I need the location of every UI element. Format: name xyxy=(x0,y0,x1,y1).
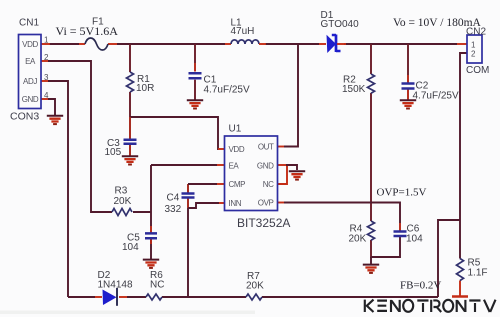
ground C5 xyxy=(143,260,159,268)
ground C1 xyxy=(187,100,203,108)
wire bottom rail xyxy=(68,296,438,298)
svg-text:20K: 20K xyxy=(246,281,264,292)
wire VDD net xyxy=(130,117,219,149)
svg-text:OVP=1.5V: OVP=1.5V xyxy=(377,187,427,199)
svg-text:332: 332 xyxy=(165,204,182,215)
svg-text:EA: EA xyxy=(25,57,36,66)
ground R4 C6 xyxy=(363,265,379,273)
svg-text:GND: GND xyxy=(257,161,274,170)
svg-text:Vo = 10V / 180mA: Vo = 10V / 180mA xyxy=(393,17,482,29)
svg-text:CN1: CN1 xyxy=(19,18,39,29)
svg-text:2: 2 xyxy=(44,53,49,62)
capacitor C1 xyxy=(194,44,196,100)
ground U1 xyxy=(289,171,305,179)
svg-text:VDD: VDD xyxy=(229,145,245,154)
capacitor C4 xyxy=(187,184,189,208)
wire EA to U1 / C5 column xyxy=(133,165,217,259)
svg-text:1N4148: 1N4148 xyxy=(98,280,133,291)
ground C3 xyxy=(122,156,138,164)
svg-text:BIT3252A: BIT3252A xyxy=(237,216,290,230)
svg-text:3: 3 xyxy=(44,73,49,82)
wire top rail xyxy=(49,43,457,45)
fuse F1 xyxy=(85,38,108,50)
svg-text:104: 104 xyxy=(122,242,139,253)
wire OUT net xyxy=(284,44,298,147)
svg-text:105: 105 xyxy=(105,147,122,158)
resistor R2 xyxy=(368,74,375,93)
resistor R5 xyxy=(457,259,464,281)
svg-text:ADJ: ADJ xyxy=(23,77,37,86)
watermark KENOTRONTV xyxy=(365,300,496,312)
resistor R6 xyxy=(146,294,162,300)
wire CN1 GND to ground xyxy=(48,99,55,116)
connector CN1 xyxy=(19,35,42,109)
ground CON3 xyxy=(47,116,63,124)
wire EA net xyxy=(48,61,112,212)
capacitor C6 xyxy=(394,232,407,237)
wire NC tie xyxy=(278,166,288,184)
svg-text:COM: COM xyxy=(466,65,489,76)
wire U1 GND pin to ground xyxy=(278,164,287,166)
svg-text:20K: 20K xyxy=(114,196,132,207)
svg-text:20K: 20K xyxy=(349,234,367,245)
wire INN net xyxy=(219,202,225,204)
svg-text:4.7uF/25V: 4.7uF/25V xyxy=(204,85,250,96)
svg-text:NC: NC xyxy=(150,280,164,291)
inductor L1 xyxy=(225,43,231,45)
svg-text:4.7uF/25V: 4.7uF/25V xyxy=(413,91,459,102)
svg-text:1: 1 xyxy=(44,36,49,45)
svg-text:C4: C4 xyxy=(167,193,180,204)
diode D2 xyxy=(95,296,102,298)
capacitor C5 xyxy=(145,233,157,238)
wire CMP net xyxy=(188,183,217,185)
svg-text:CMP: CMP xyxy=(229,180,246,189)
svg-text:R3: R3 xyxy=(115,186,128,197)
svg-text:2: 2 xyxy=(471,50,476,59)
svg-text:EA: EA xyxy=(229,161,240,170)
svg-text:GTO040: GTO040 xyxy=(321,19,360,30)
connector CN2 xyxy=(467,35,482,63)
svg-text:1: 1 xyxy=(471,41,476,50)
capacitor C2 xyxy=(407,44,409,75)
svg-text:Vi = 5V1.6A: Vi = 5V1.6A xyxy=(56,24,119,38)
svg-text:VDD: VDD xyxy=(22,40,38,49)
svg-text:104: 104 xyxy=(406,234,423,245)
svg-text:CON3: CON3 xyxy=(10,111,39,123)
svg-text:10R: 10R xyxy=(136,83,154,94)
IC U1 xyxy=(225,136,278,211)
wire CN2 pin2 / R5 column xyxy=(460,53,467,259)
svg-text:4: 4 xyxy=(44,91,49,100)
diode D1 xyxy=(319,43,326,45)
resistor R1 xyxy=(127,72,134,92)
svg-text:GND: GND xyxy=(22,95,39,104)
svg-text:NC: NC xyxy=(263,180,274,189)
svg-text:INN: INN xyxy=(229,199,242,208)
svg-text:OVP: OVP xyxy=(258,198,274,207)
svg-text:U1: U1 xyxy=(229,124,242,135)
terminal bar R5 xyxy=(452,295,468,298)
wire R1 branch xyxy=(129,44,131,117)
svg-text:FB=0.2V: FB=0.2V xyxy=(400,280,441,292)
svg-text:150K: 150K xyxy=(342,84,366,95)
wire R2/R4 column xyxy=(370,44,372,258)
capacitor C3 xyxy=(129,117,131,156)
resistor R4 xyxy=(368,221,375,240)
resistor R7 xyxy=(246,294,262,300)
wire red terminal stubs (CN1 pins, fuse ends) xyxy=(41,44,117,99)
scan artifact band xyxy=(0,311,255,315)
ground C2 xyxy=(400,100,416,108)
wire OVP net xyxy=(278,202,285,204)
resistor R3 xyxy=(112,209,132,216)
wire CN2 pin1 stub xyxy=(457,43,467,45)
wire ADJ net xyxy=(48,81,68,297)
svg-text:47uH: 47uH xyxy=(231,26,255,37)
svg-text:1.1F: 1.1F xyxy=(468,268,488,279)
svg-text:OUT: OUT xyxy=(258,142,274,151)
wire FB riser xyxy=(438,220,460,297)
